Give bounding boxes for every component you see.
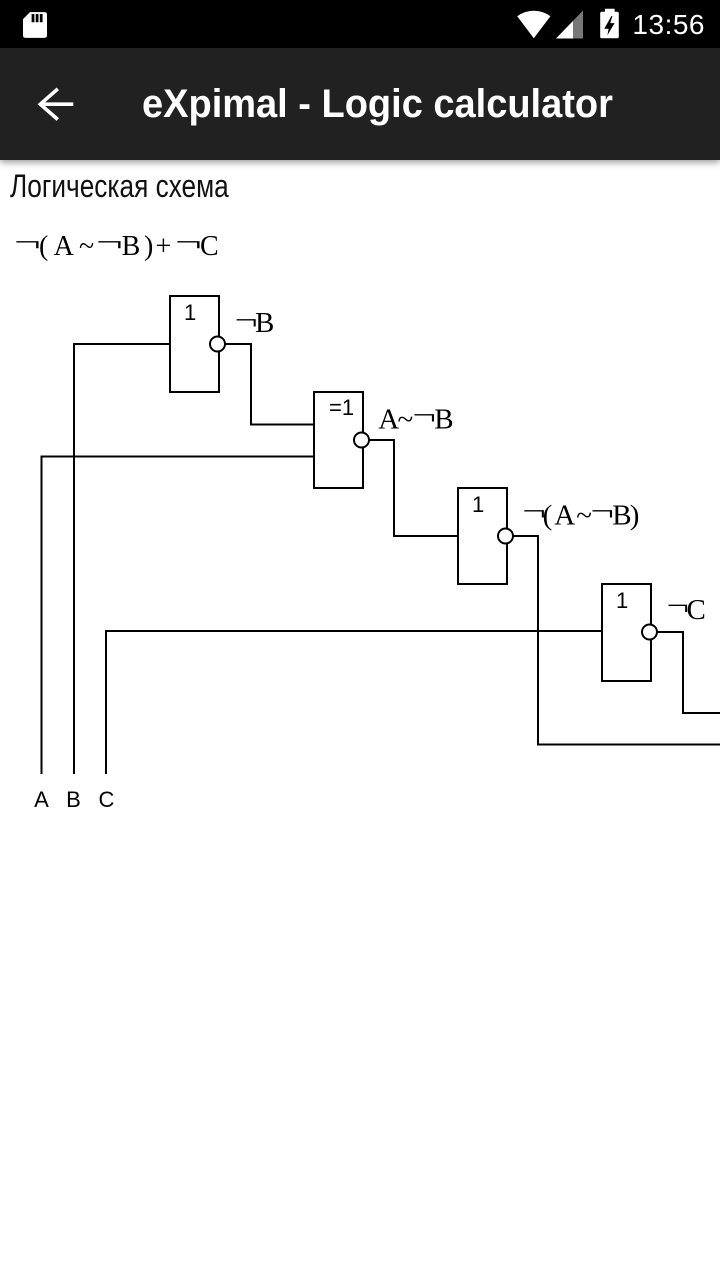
net label ¬B: [235, 303, 275, 339]
wire U2 output to U3 input: [370, 440, 458, 536]
svg-text:1: 1: [184, 300, 196, 325]
net label ¬(A~¬B): [522, 495, 639, 532]
gate U1 NOT(B) body: [170, 296, 219, 392]
net label A~¬B: [378, 399, 453, 436]
circuit schematic: [0, 0, 720, 840]
wifi icon: [515, 9, 553, 40]
signal icon: [556, 10, 584, 39]
sd card icon: [23, 12, 47, 38]
wire U4 output to right edge: [658, 632, 720, 713]
svg-text:(: (: [543, 500, 553, 532]
svg-text:B: B: [66, 787, 81, 812]
gate U2 inversion bubble: [354, 433, 369, 448]
input C wire: [106, 631, 602, 774]
battery icon: [600, 8, 619, 39]
wire U3 output to right edge lower input: [514, 536, 720, 745]
svg-text:A: A: [378, 404, 399, 436]
app title: [142, 48, 613, 160]
svg-text:A: A: [34, 787, 49, 812]
net label ¬C: [667, 589, 706, 626]
app bar: [0, 48, 720, 160]
gate U3 inversion bubble: [498, 529, 513, 544]
input B wire: [74, 344, 170, 774]
input A wire: [42, 457, 315, 775]
clock 13:56: [632, 0, 705, 48]
svg-text:A: A: [554, 500, 575, 532]
svg-text:B: B: [612, 500, 631, 532]
svg-text:1: 1: [616, 588, 628, 613]
gate U3 NOT body: [458, 488, 507, 584]
gate U4 inversion bubble: [642, 625, 657, 640]
formula label: [0, 0, 720, 270]
gate U2 XNOR body: [314, 392, 363, 488]
svg-text:=1: =1: [329, 395, 354, 420]
svg-text:¬: ¬: [590, 495, 614, 527]
svg-text:B: B: [434, 404, 453, 436]
gate U4 NOT(C) body: [602, 584, 651, 681]
status bar: [0, 0, 720, 48]
back arrow: [37, 86, 75, 124]
svg-text:C: C: [687, 594, 706, 626]
svg-text:~: ~: [398, 404, 414, 436]
gate U1 inversion bubble: [210, 337, 225, 352]
svg-text:¬: ¬: [412, 399, 436, 431]
svg-text:C: C: [99, 787, 115, 812]
wire U1 output to U2 input: [226, 344, 314, 425]
svg-text:B: B: [255, 307, 274, 339]
svg-text:): ): [630, 500, 640, 532]
heading: [10, 168, 229, 205]
svg-text:1: 1: [472, 492, 484, 517]
